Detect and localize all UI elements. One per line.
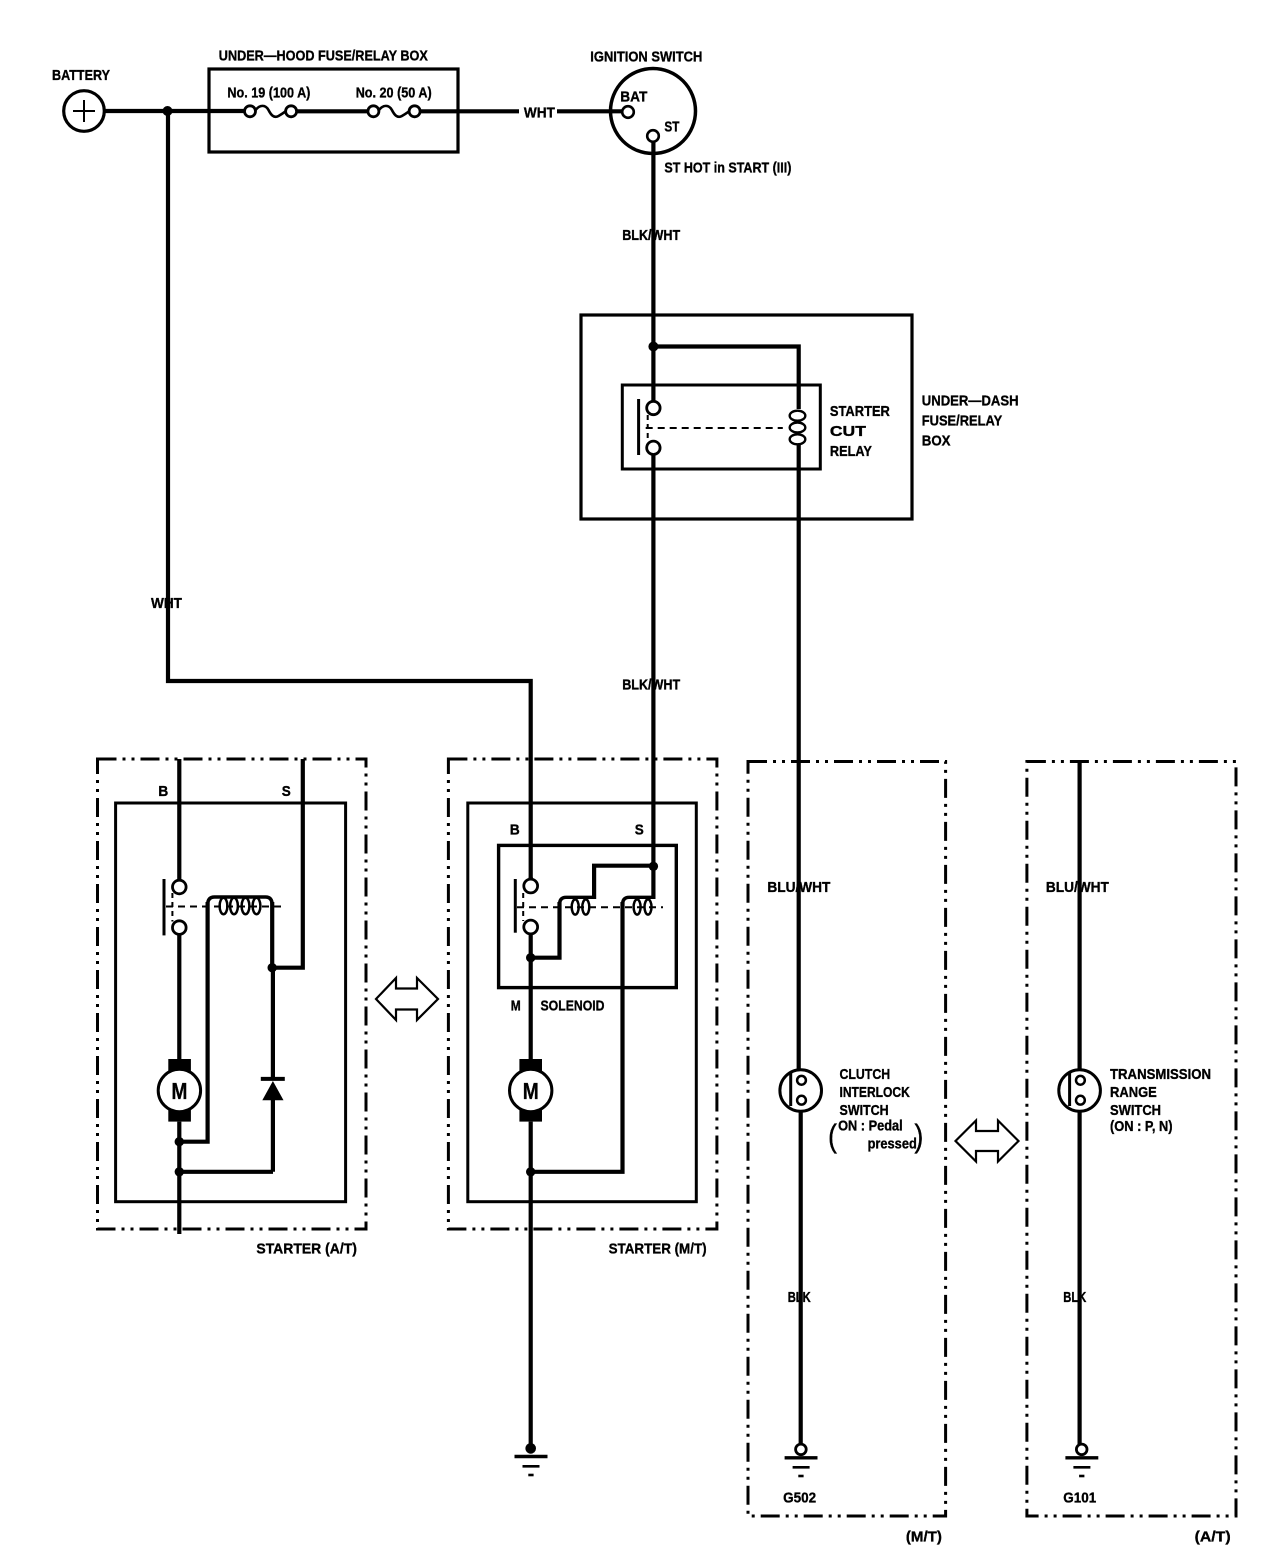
svg-text:BLU/WHT: BLU/WHT: [767, 879, 830, 896]
svg-text:CUT: CUT: [830, 423, 866, 440]
motor M (M/T): [510, 1059, 552, 1122]
starter A/T coil: [208, 897, 273, 914]
wire switch to ground G502: [799, 1111, 803, 1444]
node M/T bottom junction: [526, 1167, 535, 1176]
wire coil2-left down M/T: [532, 902, 623, 1172]
wire coil-right to junction A/T: [270, 902, 274, 968]
node A/T motor-diode junction: [175, 1167, 184, 1176]
svg-text:(: (: [828, 1118, 837, 1154]
under-hood fuse/relay box: [209, 69, 458, 152]
wire transmission switch top: [1077, 762, 1081, 1071]
svg-text:WHT: WHT: [151, 595, 182, 612]
ground G101: [1065, 1444, 1098, 1476]
svg-text:TRANSMISSION: TRANSMISSION: [1110, 1066, 1211, 1083]
label TRANSMISSION RANGE SWITCH: [1110, 1066, 1211, 1135]
wire ST to under-dash box: [651, 142, 655, 402]
starter M/T terminal circles: [524, 879, 538, 893]
wire motor to ground M/T: [529, 1122, 533, 1444]
svg-text:STARTER: STARTER: [830, 403, 890, 420]
fuse No.20 (50 A): [356, 85, 432, 117]
wire B terminal A/T: [177, 759, 181, 880]
svg-text:UNDER—HOOD FUSE/RELAY BOX: UNDER—HOOD FUSE/RELAY BOX: [219, 48, 428, 65]
svg-text:BAT: BAT: [620, 89, 647, 106]
starter A/T outer box: [98, 759, 367, 1229]
svg-text:ON : Pedal: ON : Pedal: [838, 1118, 903, 1135]
wire motor to bottom A/T: [177, 1122, 181, 1234]
svg-text:STARTER (A/T): STARTER (A/T): [256, 1241, 357, 1258]
starter M/T inner box: [468, 803, 697, 1202]
starter M/T relay contact: [514, 879, 517, 933]
transmission range box: [1027, 762, 1236, 1517]
svg-text:ST: ST: [664, 119, 679, 136]
wire junction to relay coil: [653, 347, 798, 410]
svg-text:STARTER (M/T): STARTER (M/T): [609, 1241, 707, 1258]
starter M/T dashed linkage: [522, 893, 524, 921]
ground starter M/T: [515, 1443, 548, 1475]
svg-text:pressed: pressed: [868, 1136, 917, 1153]
svg-text:M: M: [523, 1078, 539, 1104]
ignition switch: [611, 69, 696, 154]
wire diode to lower junction A/T: [271, 1099, 275, 1171]
svg-text:No. 19 (100 A): No. 19 (100 A): [227, 85, 310, 102]
svg-text:G502: G502: [783, 1490, 816, 1507]
wire S terminal A/T: [274, 759, 303, 968]
svg-text:SOLENOID: SOLENOID: [541, 997, 605, 1014]
svg-text:G101: G101: [1063, 1490, 1096, 1507]
wire battery to fuse box: [104, 109, 245, 113]
svg-text:No. 20 (50 A): No. 20 (50 A): [356, 85, 432, 102]
wire switch to ground G101: [1077, 1111, 1081, 1444]
svg-text:): ): [914, 1118, 923, 1154]
svg-text:UNDER—DASH: UNDER—DASH: [922, 393, 1019, 410]
svg-text:INTERLOCK: INTERLOCK: [840, 1084, 910, 1101]
svg-text:S: S: [635, 822, 644, 839]
svg-text:(M/T): (M/T): [906, 1529, 942, 1546]
svg-text:RANGE: RANGE: [1110, 1084, 1157, 1101]
label STARTER CUT RELAY: [830, 403, 890, 460]
svg-text:IGNITION SWITCH: IGNITION SWITCH: [590, 49, 702, 66]
svg-text:ST HOT in START (III): ST HOT in START (III): [664, 160, 791, 177]
svg-text:FUSE/RELAY: FUSE/RELAY: [922, 413, 1002, 430]
svg-text:SWITCH: SWITCH: [840, 1102, 889, 1119]
wire S junction down to coil2 M/T: [651, 866, 655, 899]
wire junction to diode A/T: [271, 968, 275, 1079]
svg-text:BLU/WHT: BLU/WHT: [1046, 879, 1109, 896]
starter A/T relay contact: [163, 879, 166, 935]
arrow between switches: [956, 1121, 1019, 1162]
starter A/T dashed linkage: [171, 893, 173, 922]
coil 1 M/T: [560, 897, 595, 914]
svg-text:BLK: BLK: [1063, 1289, 1086, 1306]
svg-text:RELAY: RELAY: [830, 443, 872, 460]
starter A/T dashed line: [166, 906, 286, 908]
svg-text:SWITCH: SWITCH: [1110, 1102, 1161, 1119]
coil 2 M/T: [623, 897, 656, 914]
clutch interlock switch: [780, 1070, 822, 1112]
svg-text:BLK: BLK: [788, 1289, 811, 1306]
transmission range switch: [1059, 1070, 1101, 1112]
svg-text:BATTERY: BATTERY: [52, 67, 110, 84]
battery BT: [64, 91, 105, 132]
starter M/T dashed line: [517, 906, 663, 908]
svg-text:CLUTCH: CLUTCH: [840, 1066, 891, 1083]
wire relay coil to clutch switch: [797, 444, 801, 1070]
node relay branch junction: [648, 342, 658, 352]
node battery junction: [163, 106, 173, 116]
svg-text:BLK/WHT: BLK/WHT: [622, 227, 680, 244]
node M/T coil1 junction: [526, 953, 535, 962]
label CLUTCH INTERLOCK SWITCH: [828, 1066, 923, 1154]
motor M (A/T): [158, 1059, 200, 1122]
svg-text:(A/T): (A/T): [1195, 1529, 1231, 1546]
svg-text:B: B: [158, 783, 168, 800]
svg-text:BLK/WHT: BLK/WHT: [622, 677, 680, 694]
wire B terminal M/T: [529, 877, 533, 879]
node A/T coil-S junction: [268, 963, 277, 972]
node A/T motor-coil junction: [175, 1137, 184, 1146]
under-dash fuse/relay box: [581, 315, 912, 519]
wire fuse box to WHT label: [420, 109, 519, 113]
node M/T S junction: [649, 862, 658, 871]
wire coil-left down A/T: [181, 902, 208, 1142]
fuse No.19 (100 A): [227, 85, 310, 117]
arrow between starters: [376, 978, 438, 1020]
svg-text:M: M: [171, 1078, 187, 1104]
starter A/T terminal circles: [173, 880, 187, 894]
starter M/T outer box: [448, 759, 717, 1229]
svg-text:BOX: BOX: [922, 433, 951, 450]
svg-text:(ON : P, N): (ON : P, N): [1110, 1118, 1173, 1135]
clutch interlock box: [748, 762, 946, 1517]
starter A/T inner box: [116, 803, 346, 1202]
svg-text:M: M: [511, 997, 521, 1014]
wire B to motor M/T: [529, 934, 533, 1060]
solenoid box: [499, 845, 677, 987]
wire WHT battery down-left: [168, 111, 531, 880]
starter cut relay: [622, 385, 820, 469]
wire B to motor A/T: [177, 934, 181, 1060]
svg-text:B: B: [510, 822, 520, 839]
svg-text:WHT: WHT: [524, 105, 555, 122]
ground G502: [785, 1444, 818, 1476]
wire S branch to coil1 M/T: [594, 866, 653, 899]
diode D: [261, 1079, 285, 1100]
wire WHT label to ignition switch: [557, 109, 623, 113]
wire relay to starter S BLK/WHT: [651, 455, 655, 867]
wire coil1-left to B wire M/T: [531, 902, 560, 958]
svg-text:S: S: [282, 783, 291, 800]
wire between fuses: [297, 109, 368, 113]
label UNDER-DASH FUSE/RELAY BOX: [922, 393, 1019, 450]
wire lower junction to diode A/T: [179, 1170, 273, 1174]
